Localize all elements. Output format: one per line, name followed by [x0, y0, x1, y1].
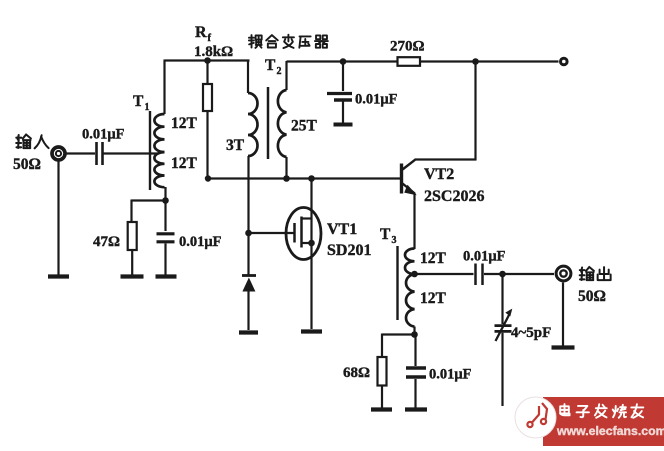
wire T3 tap to C5: [415, 273, 474, 275]
wire diode junction to gate: [249, 232, 295, 234]
wire C1 to T1 tap: [104, 152, 159, 154]
svg-text:4~5pF: 4~5pF: [511, 325, 551, 341]
capacitor C4 0.01uF: [406, 335, 472, 409]
watermark text 电子发烧友: [560, 404, 643, 418]
wire output ground: [562, 283, 564, 347]
node bus VT1 drain: [308, 175, 315, 182]
wire top T1 to T2 primary: [165, 59, 250, 61]
wire T1 top riser: [163, 60, 165, 115]
svg-text:1.8kΩ: 1.8kΩ: [194, 44, 233, 60]
transformer T1 winding 12T+12T: [154, 114, 164, 187]
svg-text:VT1: VT1: [327, 221, 357, 238]
resistor Rf: [203, 61, 212, 180]
label output 输出 50Ω: [578, 267, 611, 305]
ground wire from J1: [57, 161, 59, 275]
svg-text:T: T: [265, 57, 276, 74]
ground C2: [156, 274, 177, 278]
svg-text:www.elecfans.com: www.elecfans.com: [556, 424, 664, 438]
ground C4: [405, 407, 427, 411]
node bus T2 secondary: [283, 175, 290, 182]
ground diode: [239, 330, 258, 334]
label T1: [133, 93, 150, 113]
label T3: [380, 226, 397, 246]
wire T2 primary top riser: [247, 60, 249, 94]
ground C3: [334, 123, 353, 127]
svg-text:T: T: [133, 93, 144, 110]
transformer T1 core: [149, 111, 151, 190]
node diode gate junction: [245, 230, 252, 237]
transformer T2 core: [267, 87, 270, 159]
labels T1 12T 12T: [171, 115, 198, 172]
resistor R1 47Ω: [93, 222, 137, 250]
transformer T2 primary 3T: [248, 93, 258, 156]
wire junction to R1: [132, 199, 166, 201]
capacitor C2 0.01uF: [157, 200, 222, 275]
wire T2 secondary top to output terminal: [287, 60, 559, 62]
ground R3: [371, 407, 392, 411]
connector J1 input: [52, 147, 65, 160]
wire input to C1: [67, 152, 96, 154]
ground VT1: [301, 329, 322, 333]
resistor R3 68Ω: [343, 357, 387, 386]
svg-text:25T: 25T: [291, 118, 318, 135]
wire gate bus: [208, 177, 402, 179]
svg-text:12T: 12T: [171, 155, 198, 172]
svg-text:R: R: [195, 24, 207, 41]
node VT1 source tap: [308, 240, 315, 247]
label 耦合变压器: [249, 35, 328, 48]
labels 3T 25T: [226, 118, 318, 155]
svg-text:2: 2: [277, 66, 282, 77]
resistor R2 270Ω: [390, 39, 425, 66]
wire T3 bottom junction: [413, 327, 415, 335]
node T3 center tap: [411, 271, 418, 278]
node bus Rf: [205, 175, 211, 181]
svg-text:68Ω: 68Ω: [343, 365, 370, 381]
wire R3 to ground: [381, 386, 383, 409]
ground R1: [121, 274, 144, 278]
wire T2 primary bottom to diode: [247, 156, 249, 276]
node Rf top: [204, 57, 211, 64]
capacitor C1 0.01uF: [82, 127, 125, 166]
transformer T3 core: [396, 246, 398, 320]
wire VT1 source to ground: [310, 243, 312, 329]
transformer T3 winding 12T+12T: [405, 249, 415, 327]
node collector riser: [472, 58, 479, 65]
ground output: [552, 345, 575, 349]
node output junction: [499, 271, 506, 278]
svg-text:0.01μF: 0.01μF: [179, 234, 222, 250]
labels T3 12T 12T: [420, 250, 447, 307]
node T1 bottom junction: [162, 197, 169, 204]
svg-text:270Ω: 270Ω: [390, 39, 425, 55]
wire VT1 drain from bus: [310, 179, 312, 244]
wire collector riser: [474, 62, 476, 161]
svg-text:0.01μF: 0.01μF: [355, 92, 398, 108]
svg-text:0.01μF: 0.01μF: [463, 249, 506, 265]
transformer T2 secondary 25T: [278, 90, 287, 157]
label Rf 1.8kΩ: [194, 24, 233, 60]
wire T2 secondary bottom riser: [285, 157, 287, 179]
node T3 bottom: [411, 331, 418, 338]
svg-text:0.01μF: 0.01μF: [82, 127, 125, 143]
transistor VT2 2SC2026: [402, 160, 477, 196]
wire C5 to output: [484, 273, 554, 275]
svg-text:12T: 12T: [171, 115, 198, 132]
diode VD: [242, 276, 256, 331]
svg-text:47Ω: 47Ω: [93, 234, 120, 250]
svg-text:3: 3: [392, 235, 397, 246]
ground input: [48, 274, 69, 278]
svg-text:T: T: [380, 226, 391, 243]
mosfet VT1 SD201: [286, 208, 321, 260]
watermark red box elecfans: [515, 397, 664, 446]
labels VT2 2SC2026: [424, 166, 484, 205]
svg-text:SD201: SD201: [327, 242, 371, 259]
label T2: [265, 57, 282, 77]
connector J2 output: [556, 266, 571, 281]
capacitor C6 variable 4~5pF: [495, 274, 513, 406]
svg-text:3T: 3T: [226, 137, 245, 154]
wire VT2 emitter to T3: [413, 193, 415, 249]
wire T2 secondary top riser: [285, 61, 287, 90]
capacitor C3 0.01uF: [327, 62, 398, 124]
svg-text:f: f: [208, 33, 212, 44]
capacitor C5 0.01uF coupling: [463, 249, 506, 286]
wire T1 bottom riser: [164, 187, 166, 201]
svg-text:50Ω: 50Ω: [578, 288, 606, 305]
svg-text:2SC2026: 2SC2026: [424, 188, 484, 205]
node C3: [340, 58, 347, 65]
svg-text:1: 1: [145, 102, 150, 113]
svg-text:12T: 12T: [420, 250, 447, 267]
wire R1 to ground: [131, 250, 133, 275]
labels VT1 SD201: [327, 221, 371, 259]
terminal RF out top: [561, 58, 568, 65]
svg-text:VT2: VT2: [424, 166, 454, 183]
svg-text:12T: 12T: [420, 290, 447, 307]
label input 输入 50Ω: [13, 135, 49, 174]
svg-text:50Ω: 50Ω: [13, 156, 41, 173]
svg-text:0.01μF: 0.01μF: [429, 367, 472, 383]
